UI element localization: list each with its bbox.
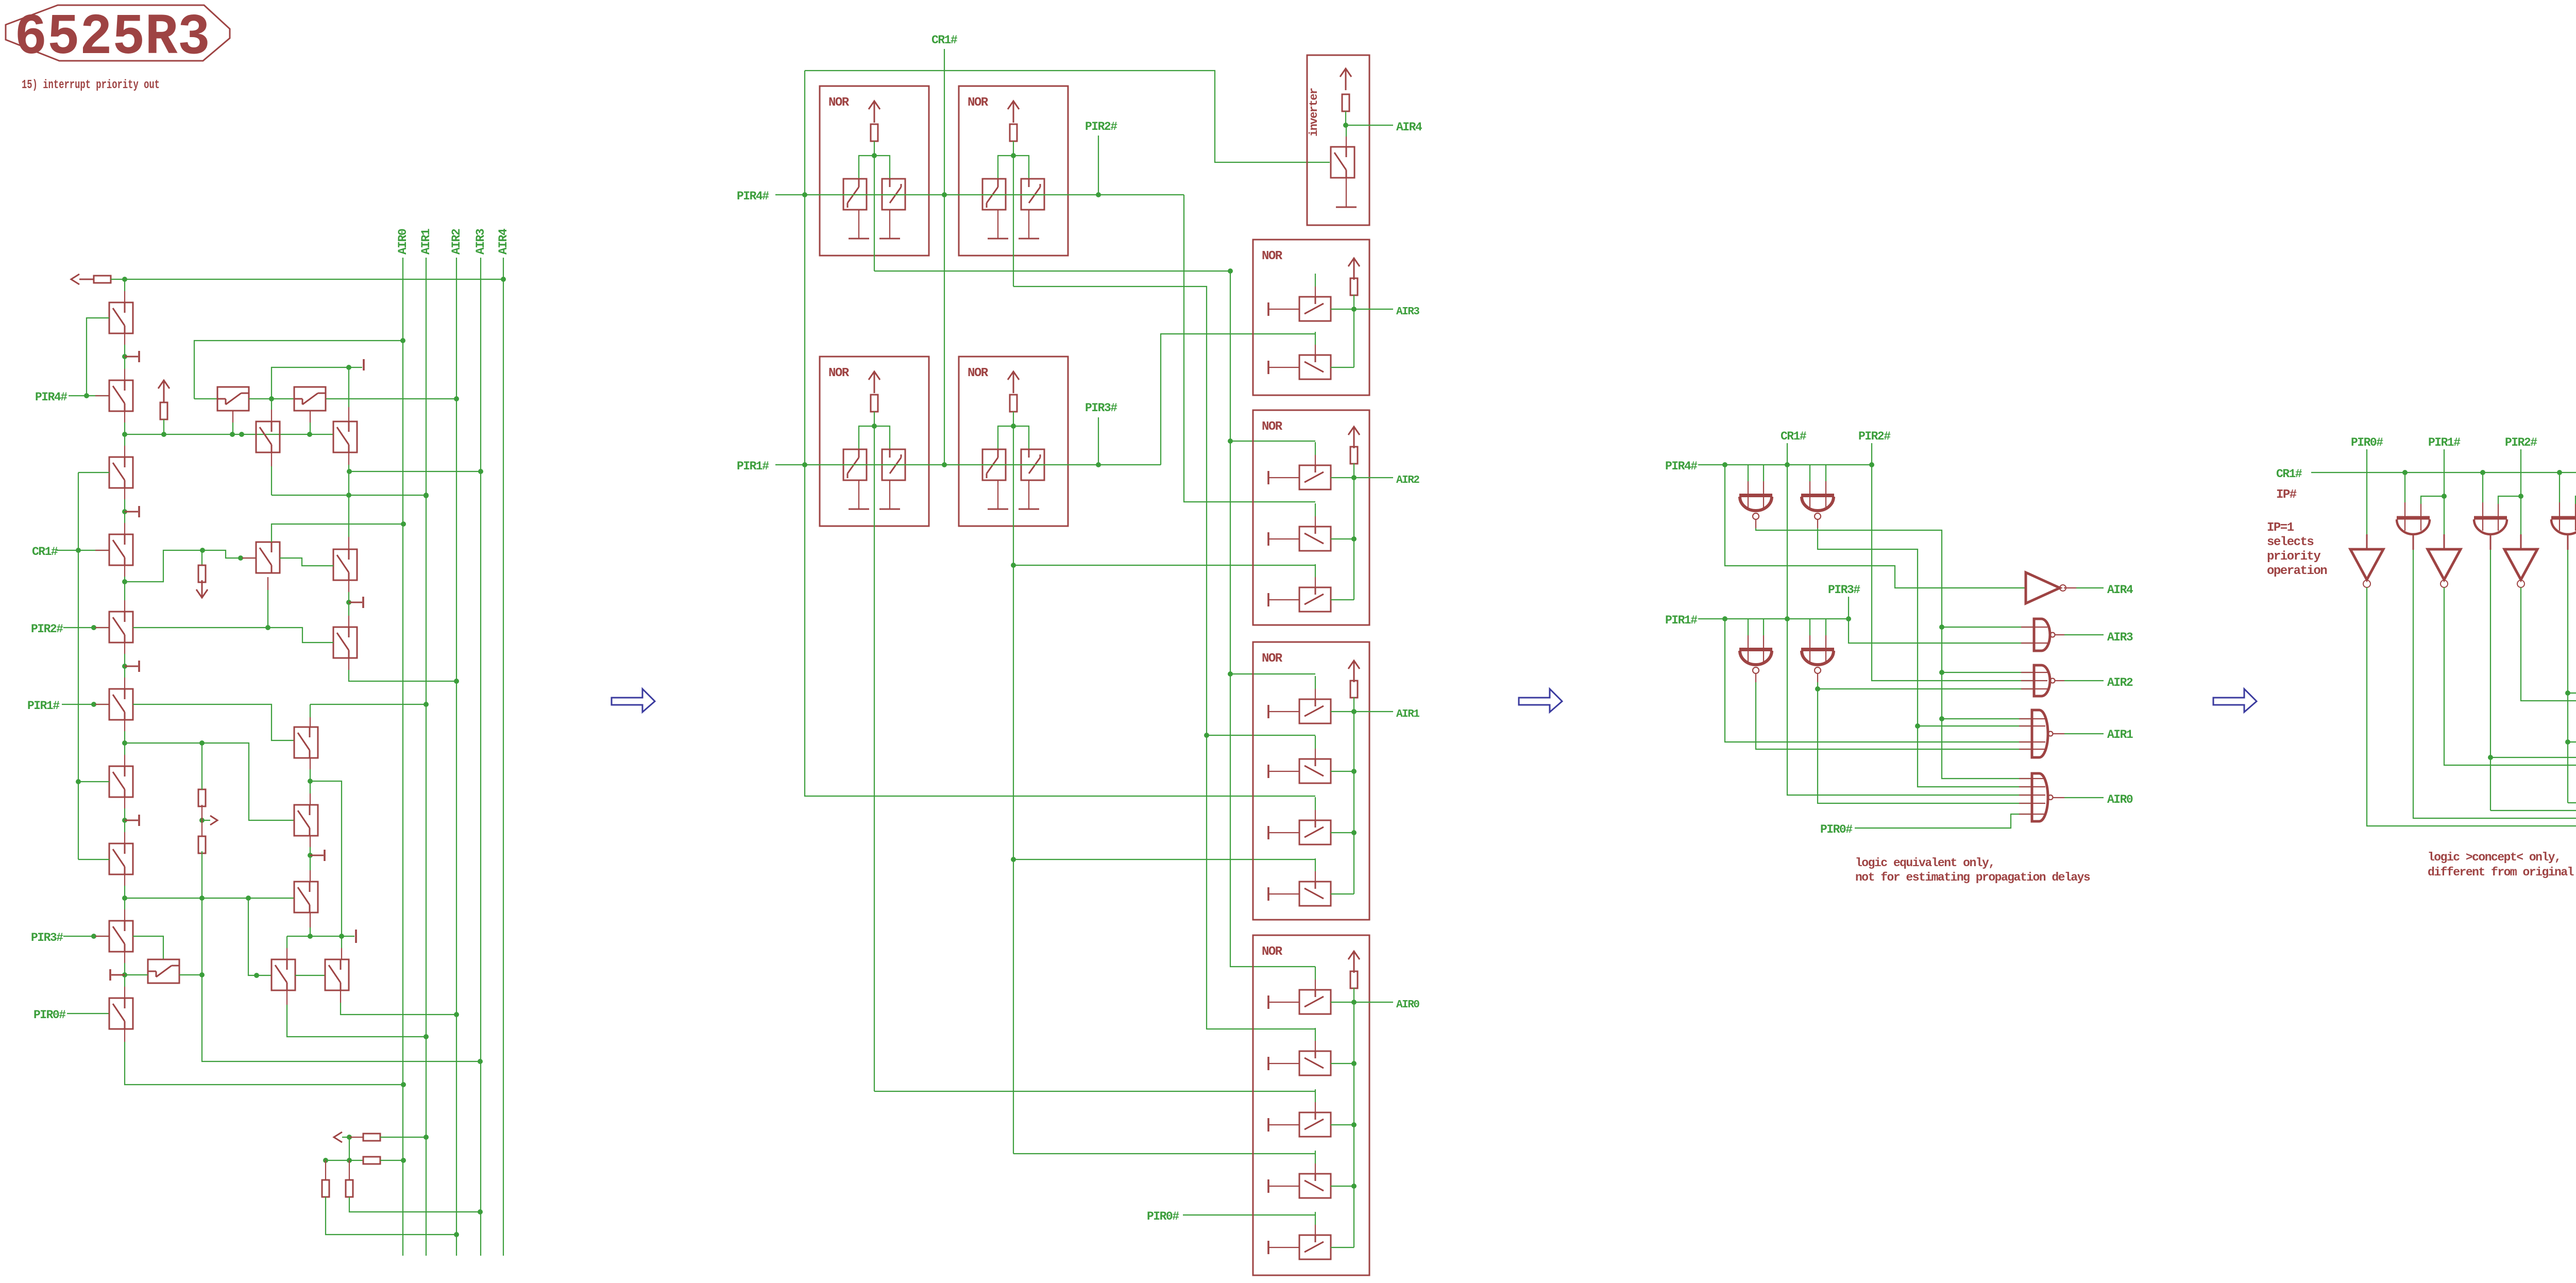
AIR0 cell t1 source T xyxy=(1267,995,1269,1009)
inverter N0 output to AIR0 xyxy=(2367,587,2576,826)
AIR0 cell t3 source T xyxy=(1267,1118,1269,1132)
AIR1 cell t2 gate drop xyxy=(1315,736,1316,749)
resistor R4 xyxy=(198,836,206,853)
svg-text:PIR3#: PIR3# xyxy=(1085,401,1117,415)
transistor V8 xyxy=(109,843,133,874)
chain V5-V6 with T xyxy=(124,643,125,654)
svg-text:PIR2#: PIR2# xyxy=(31,622,63,636)
AIR1 cell output node vertical xyxy=(1353,712,1354,894)
resistor R1 xyxy=(160,402,167,419)
PIR2# vertical xyxy=(1098,136,1099,195)
PIR2 vertical panel3 to AIR2 input xyxy=(1872,443,2034,681)
top rail resistor xyxy=(94,276,111,283)
NOR1 gnd right xyxy=(879,238,900,240)
load resistor R2 xyxy=(201,550,202,565)
NOR1 output wire xyxy=(874,156,875,271)
NOR1 gnd stubs xyxy=(858,210,859,239)
svg-text:inverter: inverter xyxy=(1308,88,1320,137)
NOR1 transistor left xyxy=(843,179,867,210)
transistor V3 xyxy=(109,457,133,488)
AIR2 cell t1 source T xyxy=(1267,471,1269,484)
transistor PA xyxy=(272,959,295,990)
Vb top stub xyxy=(348,367,349,407)
NOR3 pullup resistor xyxy=(871,395,878,412)
V10 bottom wire to AIR0 xyxy=(124,1029,125,1042)
NOR gate G3 xyxy=(1739,650,1772,674)
CR1# vertical panel2 xyxy=(944,49,945,465)
transistor HT6 xyxy=(333,549,357,580)
top rail arrow xyxy=(71,274,79,284)
svg-text:logic >concept< only,: logic >concept< only, xyxy=(2428,851,2561,864)
AIR3 cell pullup resistor xyxy=(1350,278,1358,295)
inverter N2 xyxy=(2504,549,2537,587)
NOR4 output wire xyxy=(1013,426,1014,1154)
svg-text:AIR4: AIR4 xyxy=(1396,121,1422,134)
substrate T node F xyxy=(310,855,324,856)
NOR1 node wires xyxy=(874,141,875,156)
NOR gate G1 xyxy=(1739,496,1772,520)
svg-text:CR1#: CR1# xyxy=(2276,467,2302,481)
HT5 bottom stub xyxy=(267,577,268,590)
PIR2# vertical panel4 xyxy=(2520,449,2521,534)
svg-text:NOR: NOR xyxy=(968,96,989,110)
AIR3 bus vertical xyxy=(480,258,481,1256)
AIR2 cell output node vertical xyxy=(1353,478,1354,600)
svg-text:NOR: NOR xyxy=(968,366,989,380)
svg-text:operation: operation xyxy=(2267,564,2327,578)
OR gate O1 right input wire xyxy=(2421,496,2444,504)
NOR block NOR4 xyxy=(959,357,1068,526)
PairB bottom wire to AIR2 xyxy=(340,990,341,1003)
chain V7-V8 with T xyxy=(124,797,125,808)
svg-text:IP=1: IP=1 xyxy=(2267,521,2294,535)
AIR1 cell transistor t3 xyxy=(1299,820,1331,845)
HT11 left wire xyxy=(125,974,148,975)
substrate bar B2 xyxy=(355,930,357,943)
svg-text:logic equivalent only,: logic equivalent only, xyxy=(1855,856,1995,870)
svg-text:AIR1: AIR1 xyxy=(419,229,433,255)
NAND gate AIR1p3 xyxy=(2019,710,2053,757)
AIR3 cell t2 gate drop xyxy=(1315,332,1316,345)
NOR2 gnd stubs xyxy=(997,210,998,239)
AIR3 cell block box xyxy=(1253,240,1369,395)
HT-R3 bottom stub xyxy=(310,913,311,927)
PIR0# wire to AIR0 t5 xyxy=(1183,1214,1315,1216)
HT6 bottom chain with T xyxy=(348,581,349,592)
chain wire V1 top xyxy=(124,279,125,291)
NOR2 VDD arrow xyxy=(1008,101,1019,109)
AIR2 cell transistor t1 xyxy=(1299,465,1331,489)
svg-text:PIR0#: PIR0# xyxy=(1147,1210,1179,1223)
inverter block box xyxy=(1307,55,1369,225)
AIR0 cell t4 source T xyxy=(1267,1179,1269,1193)
chain V6-V7 xyxy=(124,720,125,731)
panel separator blue arrow xyxy=(2213,689,2257,712)
NOR gate G2 xyxy=(1801,496,1834,520)
gnd arrow below R2 xyxy=(196,589,208,598)
node rail y843 xyxy=(125,434,333,435)
wire y1817 pair tops xyxy=(287,936,354,937)
AIR3 cell t2 source T xyxy=(1267,361,1269,374)
inverter resistor xyxy=(1342,94,1349,111)
transistor V7 xyxy=(109,766,133,797)
CR1 vertical panel3 xyxy=(1787,443,1788,619)
AIR0 out wire panel3 xyxy=(2053,797,2064,798)
AIR1 cell t4 gate drop xyxy=(1315,858,1316,871)
NOR2 gnd right xyxy=(1019,238,1039,240)
AIR0 cell transistor t2 xyxy=(1299,1051,1331,1075)
svg-text:NOR: NOR xyxy=(828,366,850,380)
NOR4 VDD arrow xyxy=(1008,372,1019,380)
svg-text:PIR0#: PIR0# xyxy=(33,1008,66,1022)
transistor V6 xyxy=(109,689,133,720)
PIR4# wire xyxy=(69,395,109,396)
AIR2 cell t1 drain wire xyxy=(1331,477,1354,478)
substrate T node A xyxy=(125,356,138,358)
svg-text:PIR2#: PIR2# xyxy=(2505,436,2537,449)
svg-text:PIR1#: PIR1# xyxy=(27,699,60,713)
NOR3 node wires xyxy=(874,412,875,426)
wire upper loop y661 xyxy=(194,341,403,399)
svg-text:AIR2: AIR2 xyxy=(2107,676,2133,689)
AIR1 cell transistor t1 xyxy=(1299,699,1331,723)
NAND gate AIR3p3 xyxy=(2021,619,2055,651)
R8 wire to AIR3 xyxy=(349,1197,480,1212)
resistor R7 xyxy=(322,1180,329,1197)
inverter transistor xyxy=(1331,147,1354,178)
NOR4 transistor left xyxy=(982,449,1006,480)
PIR1 row wire panel3 xyxy=(1698,618,1849,619)
chain V4-V5 xyxy=(124,565,125,577)
svg-text:6525R3: 6525R3 xyxy=(14,5,210,71)
AIR4 output wire xyxy=(1346,125,1393,126)
AIR1 cell transistor t4 xyxy=(1299,882,1331,906)
OR3 output vertical xyxy=(2567,550,2568,803)
substrate T node D xyxy=(125,666,138,667)
x1562 vertical to AIR1 t3 feed xyxy=(805,195,1315,796)
NOR gate G4 inputs xyxy=(1809,619,1810,635)
G3 output wire xyxy=(1755,674,1756,682)
buffer U1 xyxy=(2026,572,2066,603)
PIR3# vertical xyxy=(1098,417,1099,465)
pair gate wire from rail xyxy=(248,898,272,975)
HT-R1 top segment wire to AIR1 xyxy=(310,704,426,705)
top rail to inverter xyxy=(805,71,1330,162)
svg-text:PIR1#: PIR1# xyxy=(1665,614,1698,627)
PIR1 row to AIR3 t2 feed xyxy=(1161,334,1315,465)
CR1# wire xyxy=(57,550,109,551)
mid column wires xyxy=(201,743,202,789)
NOR1 VDD arrow xyxy=(869,101,880,109)
AIR3 cell t1 source T xyxy=(1267,302,1269,316)
svg-text:NOR: NOR xyxy=(1262,420,1283,434)
NOR4 gnd left xyxy=(988,509,1008,510)
AIR2 cell block box xyxy=(1253,410,1369,625)
wire y915 to AIR3 xyxy=(349,471,481,472)
AIR0 cell block box xyxy=(1253,935,1369,1275)
top rail wire to AIR4 xyxy=(111,279,503,280)
substrate T node C xyxy=(125,511,138,513)
NOR2 transistor left xyxy=(982,179,1006,210)
AIR0 cell transistor t5 xyxy=(1299,1235,1331,1259)
gate column x152 xyxy=(78,472,79,859)
HT11 right wire to x392 xyxy=(179,974,202,975)
svg-text:AIR4: AIR4 xyxy=(497,228,510,255)
AIR0 cell transistor t1 xyxy=(1299,990,1331,1014)
PIR1 vertical to AIR1 input xyxy=(1725,619,2032,742)
AIR0 cell t5 source T xyxy=(1267,1241,1269,1254)
R5 wire to AIR1 xyxy=(380,1137,426,1138)
AIR0 bus vertical xyxy=(402,258,403,1256)
AIR2 cell t2 drain wire xyxy=(1331,538,1354,539)
AIR1 cell t4 source T xyxy=(1267,887,1269,901)
HT-R2 bottom chain with T xyxy=(310,836,311,847)
AIR4 bus vertical xyxy=(503,258,504,1256)
substrate T node G xyxy=(111,974,125,976)
bottom cluster link xyxy=(349,1137,350,1160)
svg-text:CR1#: CR1# xyxy=(1781,430,1807,443)
NOR2 node wires xyxy=(1013,141,1014,156)
AIR2 cell output wire xyxy=(1354,477,1393,478)
bottom row2 wire xyxy=(326,1160,363,1161)
AIR0 cell t2 source T xyxy=(1267,1057,1269,1070)
PIR4 row turn down to AIR2 t2 feed xyxy=(1184,195,1315,502)
transistor HTR3 xyxy=(294,882,318,913)
AIR1 cell t3 drain wire xyxy=(1331,832,1354,833)
channel HT4 to AIR2 xyxy=(326,398,456,399)
transistor V10 xyxy=(109,998,133,1029)
G4 output wire xyxy=(1817,674,1818,682)
substrate bar B1 xyxy=(363,359,365,370)
svg-text:PIR2#: PIR2# xyxy=(1858,430,1891,443)
V7 gate wire xyxy=(78,781,109,782)
PIR4 to AIR4 wire xyxy=(1725,465,2025,588)
HT-R1 top stub xyxy=(310,704,311,717)
AIR1 cell transistor t2 xyxy=(1299,759,1331,783)
bottom resistor R6 xyxy=(363,1157,380,1164)
PairA top stub xyxy=(286,936,287,948)
G4 output branch to AIR0 xyxy=(1818,689,2032,803)
AIR1 cell output wire xyxy=(1354,711,1393,712)
AIR3 cell t1 drain wire xyxy=(1331,309,1354,310)
PIR0# vertical panel4 xyxy=(2366,449,2367,534)
AIR3 cell output wire xyxy=(1354,309,1393,310)
R1 to rail wire xyxy=(163,419,164,434)
svg-text:selects: selects xyxy=(2267,535,2313,549)
panel separator blue arrow xyxy=(1519,689,1562,712)
G2 output wire xyxy=(1817,520,1818,528)
NOR2 gnd left xyxy=(988,238,1008,240)
transistor Va xyxy=(256,421,280,452)
resistor R3 xyxy=(198,789,206,806)
NOR1 pullup resistor xyxy=(871,124,878,141)
NOR gate G3 inputs xyxy=(1748,619,1749,635)
channel HT3-HT4 xyxy=(249,398,294,399)
chain V8-V9 xyxy=(124,874,125,886)
AIR2 cell pullup resistor xyxy=(1350,447,1358,464)
wire to HT5 gate xyxy=(202,550,256,558)
svg-text:AIR2: AIR2 xyxy=(1396,475,1419,486)
AIR2 cell t3 source T xyxy=(1267,593,1269,606)
V1 gate link wire xyxy=(87,318,109,396)
NOR gate G2 inputs xyxy=(1809,465,1810,481)
transistor V1 xyxy=(109,302,133,333)
svg-text:15) interrupt priority out: 15) interrupt priority out xyxy=(22,78,160,92)
svg-text:NOR: NOR xyxy=(828,96,850,110)
NOR1 gnd left xyxy=(849,238,869,240)
PIR1# row wire xyxy=(775,464,1161,465)
HT3 bottom stub xyxy=(232,411,233,423)
HT5 top stub wire to AIR0 xyxy=(272,524,403,542)
CR1 row wire panel4 xyxy=(2311,472,2576,518)
svg-text:AIR4: AIR4 xyxy=(2107,583,2133,597)
svg-text:AIR0: AIR0 xyxy=(396,229,410,255)
OR gate O1 xyxy=(2397,518,2430,550)
HT5 right to HT6 gate wire xyxy=(280,558,333,566)
PairB top stub xyxy=(341,936,342,948)
transistor V5 xyxy=(109,612,133,643)
AIR1 cell t4 drain wire xyxy=(1331,893,1354,894)
AIR0 cell t4 drain wire xyxy=(1331,1186,1354,1187)
svg-text:PIR1#: PIR1# xyxy=(737,460,769,473)
PIR3 continuation to HT11 gate xyxy=(133,936,163,959)
transistor PB xyxy=(325,959,349,990)
NOR3 transistor left xyxy=(843,449,867,480)
inverter node wire xyxy=(1345,111,1346,125)
NOR2 transistor right xyxy=(1021,179,1044,210)
NOR block NOR1 xyxy=(820,86,929,256)
AIR2 cell t1 gate drop xyxy=(1315,442,1316,455)
svg-text:AIR0: AIR0 xyxy=(2107,793,2133,806)
PIR2# wire xyxy=(63,627,109,628)
transistor HT8 xyxy=(333,627,357,658)
transistor HTR1 xyxy=(294,727,318,758)
NOR4 transistor right xyxy=(1021,449,1044,480)
NOR4 pullup resistor xyxy=(1010,395,1017,412)
svg-text:PIR3#: PIR3# xyxy=(31,931,63,944)
G1 taps to gates xyxy=(1942,627,2034,628)
svg-text:PIR4#: PIR4# xyxy=(737,190,769,203)
svg-text:PIR1#: PIR1# xyxy=(2428,436,2461,449)
OR gate O3 right input wire xyxy=(2575,496,2576,504)
AIR1 bus vertical xyxy=(426,258,427,1256)
PIR1# inverter input stub xyxy=(2444,534,2445,549)
R7 wire to AIR2 xyxy=(326,1197,456,1235)
NOR3 gnd stubs xyxy=(858,480,859,509)
svg-text:AIR1: AIR1 xyxy=(2107,728,2133,741)
Vb bottom chain to HT6 xyxy=(348,452,349,465)
HT-R1 bottom chain xyxy=(310,758,311,769)
transistor HT5 xyxy=(256,542,280,573)
AIR2 cell VDD arrow xyxy=(1348,427,1360,435)
PIR2# inverter input stub xyxy=(2520,534,2522,549)
svg-text:not for estimating propagation: not for estimating propagation delays xyxy=(1855,871,2090,884)
AIR3 cell transistor t2 xyxy=(1299,355,1331,379)
NOR1 out taps xyxy=(1230,441,1315,442)
inverter N0 xyxy=(2350,549,2383,587)
inverter gnd xyxy=(1346,178,1347,207)
inverter gnd bar xyxy=(1336,207,1357,208)
substrate T node B xyxy=(349,602,362,603)
svg-text:NOR: NOR xyxy=(1262,652,1283,666)
svg-text:PIR0#: PIR0# xyxy=(2351,436,2383,449)
svg-text:CR1#: CR1# xyxy=(32,545,58,559)
bottom resistor R5 xyxy=(363,1134,380,1141)
transistor V4 xyxy=(109,534,133,565)
svg-text:AIR3: AIR3 xyxy=(2107,631,2133,644)
NOR3 transistor right xyxy=(882,449,905,480)
NOR1 transistor right xyxy=(882,179,905,210)
AIR0 cell t4 gate drop xyxy=(1315,1151,1316,1163)
AIR1 cell t2 source T xyxy=(1267,765,1269,778)
PIR0 wire to AIR0 gate xyxy=(1855,814,2032,828)
R6 wire to AIR0 xyxy=(380,1160,403,1161)
AIR0 cell transistor t3 xyxy=(1299,1112,1331,1137)
panel separator blue arrow xyxy=(612,689,655,712)
AIR1 cell t3 gate drop xyxy=(1315,797,1316,810)
AIR0 cell output wire xyxy=(1354,1002,1393,1003)
AIR0 cell t1 gate drop xyxy=(1315,967,1316,980)
AIR0 cell t3 gate drop xyxy=(1315,1089,1316,1102)
AIR0 cell t1 drain wire xyxy=(1331,1002,1354,1003)
AIR2 cell t3 drain wire xyxy=(1331,599,1354,600)
NOR3 gnd left xyxy=(849,509,869,510)
bottom cluster arrow1 xyxy=(334,1132,342,1142)
AIR3 out wire panel3 xyxy=(2055,634,2064,635)
transistor HTR2 xyxy=(294,805,318,836)
transistor HT4 xyxy=(294,387,326,411)
AIR1 cell VDD arrow xyxy=(1348,661,1360,669)
svg-text:AIR2: AIR2 xyxy=(450,229,463,255)
OR gate O3 left input xyxy=(2559,472,2560,502)
OR gate O1 left input xyxy=(2404,472,2405,502)
inverter VDD arrow xyxy=(1340,69,1351,77)
transistor HT3 xyxy=(217,387,249,411)
svg-text:AIR3: AIR3 xyxy=(1396,306,1419,318)
AIR1 cell pullup resistor xyxy=(1350,681,1358,698)
NOR4 gnd right xyxy=(1019,509,1039,510)
logo frame 6525R3 xyxy=(6,5,230,61)
OR1 output vertical to AIR0 xyxy=(2413,550,2576,818)
Va top stub xyxy=(271,399,272,410)
AIR3 cell transistor t1 xyxy=(1299,297,1331,321)
AIR0 cell output node vertical xyxy=(1353,1002,1354,1247)
pair bottoms to AIR1 rail dot xyxy=(423,493,429,498)
link wire to x663 xyxy=(310,781,342,936)
AIR0 cell VDD arrow xyxy=(1348,951,1360,959)
NAND gate AIR2p3 xyxy=(2021,665,2055,696)
PIR1# vertical panel4 xyxy=(2444,449,2445,534)
svg-text:priority: priority xyxy=(2267,550,2320,564)
transistor HT11 xyxy=(148,959,179,983)
PIR0# wire xyxy=(67,1013,109,1014)
NAND gate AIR0p3 xyxy=(2019,773,2053,821)
PIR1# wire xyxy=(62,704,109,705)
node rail y1743 xyxy=(125,898,294,899)
AIR0 cell t3 drain wire xyxy=(1331,1124,1354,1125)
OR2 output vertical xyxy=(2490,550,2491,811)
AIR1 cell t1 drain wire xyxy=(1331,711,1354,712)
channel PairA-PairB xyxy=(295,975,325,976)
AIR4 out wire panel3 xyxy=(2064,587,2076,588)
AIR3 cell output node vertical xyxy=(1353,309,1354,367)
NOR gate G1 inputs xyxy=(1748,465,1749,481)
mid column junction arrow xyxy=(199,818,205,823)
AIR0 cell pullup resistor xyxy=(1350,971,1358,988)
AIR3 cell t2 drain wire xyxy=(1331,367,1354,368)
HT8 bottom wire to AIR2 xyxy=(348,658,349,670)
svg-text:PIR2#: PIR2# xyxy=(1085,120,1117,133)
